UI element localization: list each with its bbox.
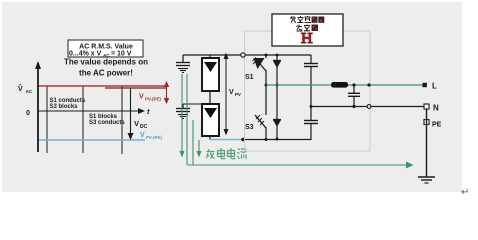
svg-text:DC: DC <box>140 124 148 130</box>
svg-text:The value depends on: The value depends on <box>64 58 148 67</box>
svg-text:↵: ↵ <box>461 187 469 198</box>
svg-text:V̂: V̂ <box>18 84 23 93</box>
svg-text:S3: S3 <box>245 124 254 131</box>
svg-text:PV-(PE): PV-(PE) <box>145 96 161 101</box>
svg-text:L: L <box>432 82 437 91</box>
svg-text:V: V <box>139 94 144 101</box>
svg-text:0: 0 <box>26 110 30 117</box>
svg-text:N: N <box>433 104 439 113</box>
svg-text:S3 blocks: S3 blocks <box>50 104 79 110</box>
svg-text:V: V <box>229 89 234 96</box>
svg-text:V: V <box>134 119 139 128</box>
svg-text:S1: S1 <box>245 74 254 81</box>
svg-text:AC: AC <box>26 89 33 94</box>
svg-text:V: V <box>140 132 145 139</box>
svg-text:the AC power!: the AC power! <box>79 69 133 78</box>
svg-text:AC R.M.S. Value: AC R.M.S. Value <box>79 43 133 50</box>
svg-text:S3 conducts: S3 conducts <box>89 120 125 126</box>
svg-text:PE: PE <box>432 122 442 129</box>
svg-text:PV: PV <box>235 92 241 97</box>
svg-text:PV-(PE): PV-(PE) <box>146 135 162 140</box>
